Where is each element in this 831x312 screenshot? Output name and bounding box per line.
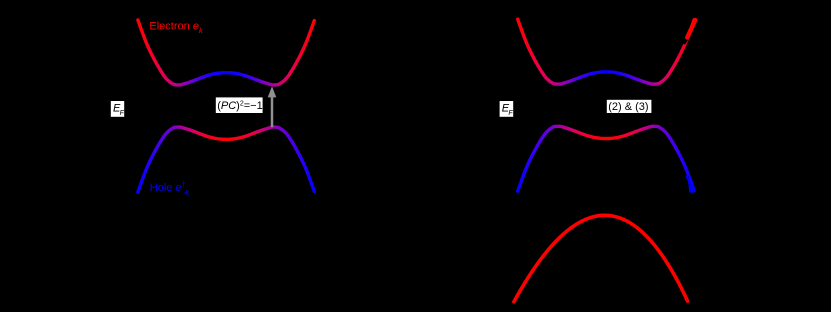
third band: red parabola <box>514 215 688 301</box>
(2) & (3) label box <box>607 100 652 113</box>
band splitting artifact top-right arm <box>684 20 695 44</box>
E_F label box (right) <box>500 101 514 117</box>
gap arrow shaft (gray) <box>271 97 274 127</box>
E_F label box (left) <box>111 101 125 117</box>
gap arrow head (gray, under bands) <box>268 86 277 97</box>
svg-text:F: F <box>120 110 125 117</box>
parabola split notch <box>689 284 692 292</box>
hole band (left panel) <box>138 127 314 192</box>
band splitting artifact middle-right tip <box>686 176 693 192</box>
svg-text:F: F <box>508 110 513 117</box>
(PC)^2=-1 label box <box>216 97 263 113</box>
svg-text:(2) & (3): (2) & (3) <box>608 101 648 113</box>
electron band (right panel, bands 2&3) <box>518 19 694 84</box>
electron band (left panel) <box>138 20 314 85</box>
hole band (right panel) <box>518 126 694 191</box>
